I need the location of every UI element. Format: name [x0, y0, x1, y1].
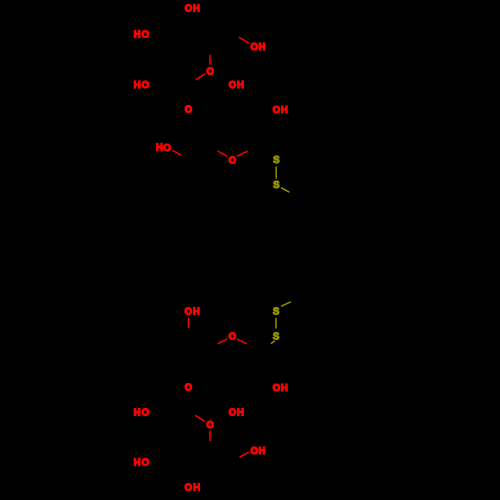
- svg-text:O: O: [229, 332, 237, 343]
- svg-text:O: O: [206, 420, 214, 431]
- sulfur S2 disulfide top: [273, 180, 280, 191]
- disulfide bond S3-S4: [275, 318, 277, 329]
- bond S2-CH2 yellow half (to alkyl chain): [281, 188, 289, 193]
- hydroxyl O3'-H right (OH): [273, 105, 288, 116]
- svg-text:O: O: [142, 408, 150, 419]
- hydroxyl O-H bottom (OH): [185, 483, 201, 494]
- bond S3-CH2 yellow half (to alkyl chain): [281, 302, 291, 307]
- bond C5''-O5'' red half left sugar-3: [218, 339, 228, 344]
- svg-text:S: S: [273, 180, 280, 191]
- svg-text:H: H: [193, 4, 200, 15]
- glycosidic oxygen O1' bottom: [185, 383, 193, 394]
- hydroxyl O6-H top (OH): [185, 4, 200, 15]
- hydroxyl H-O4 lower-left (HO): [134, 458, 150, 469]
- svg-text:O: O: [229, 408, 237, 419]
- hydroxyl O2''-H middle-bottom (OH): [229, 408, 244, 419]
- hydroxyl H-O3 lower-left (HO): [134, 408, 150, 419]
- svg-text:H: H: [281, 383, 288, 394]
- sulfur S3 disulfide bottom: [273, 307, 280, 318]
- svg-text:H: H: [134, 30, 141, 41]
- svg-text:H: H: [259, 446, 266, 457]
- bond O5'-C1' red half right sugar-2: [237, 151, 248, 156]
- hydroxyl O3''-H right-bottom (OH): [273, 383, 288, 394]
- bond O6-C6 red half sugar-2: [172, 150, 181, 155]
- sulfur S4 disulfide bottom: [273, 331, 280, 342]
- svg-text:H: H: [134, 80, 141, 91]
- svg-text:H: H: [237, 80, 244, 91]
- svg-text:O: O: [206, 67, 214, 78]
- hydroxyl H-O3 left (HO): [134, 80, 150, 91]
- bond O5''-C1'' red half right sugar-3: [237, 339, 247, 344]
- svg-text:S: S: [273, 331, 280, 342]
- svg-text:S: S: [273, 155, 280, 166]
- svg-text:O: O: [229, 155, 237, 166]
- svg-text:O: O: [163, 143, 171, 154]
- svg-text:O: O: [251, 42, 259, 53]
- glycosidic oxygen O1 top: [185, 105, 193, 116]
- svg-text:H: H: [259, 42, 266, 53]
- bond C5'''-O5''' red half vertical sugar-4: [209, 431, 211, 441]
- svg-text:O: O: [185, 483, 193, 494]
- svg-text:H: H: [156, 143, 163, 154]
- svg-text:H: H: [237, 408, 244, 419]
- svg-text:S: S: [273, 307, 280, 318]
- svg-text:O: O: [229, 80, 237, 91]
- hydroxyl H-O4 upper-left (HO): [134, 30, 150, 41]
- sulfur S1 disulfide top: [273, 155, 280, 166]
- bond O6-C6 red half vertical sugar-3: [188, 318, 190, 328]
- hydroxymethyl H-O6 sugar-2 (HO): [156, 143, 172, 154]
- hydroxymethyl O6-H sugar-3 (OH): [185, 307, 200, 318]
- svg-text:O: O: [185, 4, 193, 15]
- bond O5-C1 red half diagonal sugar-1: [196, 74, 206, 80]
- bond O5'''-C1''' red half diagonal sugar-4: [195, 415, 205, 421]
- bond C5'-O5' red half left sugar-2: [218, 151, 228, 156]
- svg-text:H: H: [193, 483, 200, 494]
- svg-text:O: O: [185, 307, 193, 318]
- hydroxyl O6'''-H lower-right (OH): [251, 446, 266, 457]
- svg-text:H: H: [134, 408, 141, 419]
- svg-text:O: O: [273, 383, 281, 394]
- ring oxygen O5''' sugar-4: [206, 420, 214, 431]
- ring oxygen O5 sugar-1: [206, 67, 214, 78]
- svg-text:O: O: [185, 105, 193, 116]
- bond S4-C1'' yellow half: [271, 341, 275, 344]
- svg-text:O: O: [142, 30, 150, 41]
- ring oxygen O5' sugar-2: [229, 155, 237, 166]
- svg-text:O: O: [185, 383, 193, 394]
- bond C5-O5 red half vertical sugar-1: [209, 55, 211, 65]
- svg-text:O: O: [251, 446, 259, 457]
- hydroxyl O2-H middle (OH): [229, 80, 244, 91]
- bond C6'''-O6''' red half (to lower-right OH): [240, 452, 249, 457]
- disulfide bond S1-S2: [275, 166, 277, 178]
- svg-text:H: H: [134, 458, 141, 469]
- svg-text:O: O: [142, 80, 150, 91]
- svg-text:O: O: [142, 458, 150, 469]
- bond C6'-O6' red half (to upper-right OH): [239, 37, 249, 43]
- ring oxygen O5'' sugar-3: [229, 332, 237, 343]
- svg-text:O: O: [273, 105, 281, 116]
- hydroxyl O6'-H upper-right (OH): [251, 42, 266, 53]
- svg-text:H: H: [281, 105, 288, 116]
- svg-text:H: H: [193, 307, 200, 318]
